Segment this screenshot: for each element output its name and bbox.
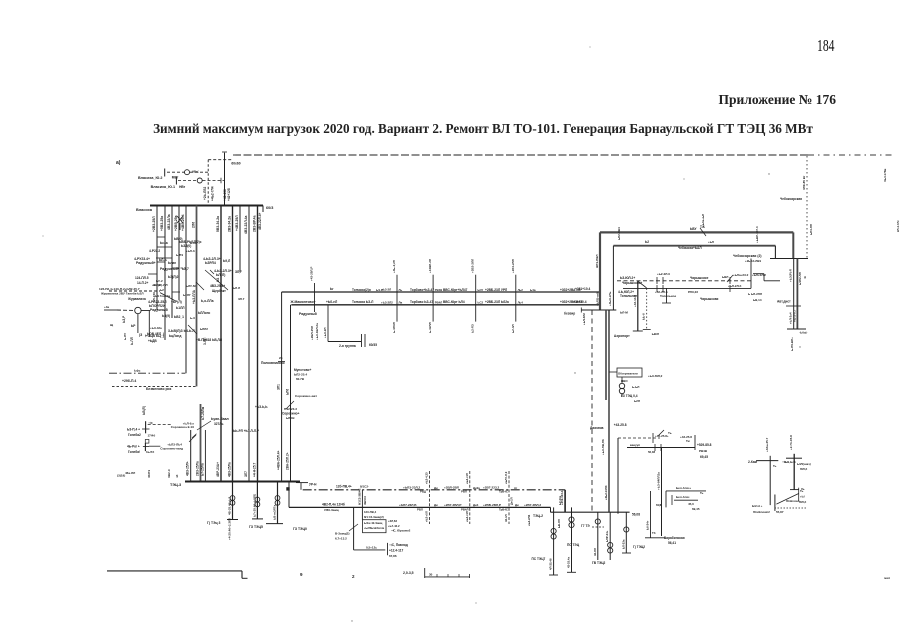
extra rot label B4 <box>527 514 531 526</box>
tap 2-я группа transformer <box>323 305 377 348</box>
bus B4 labels <box>322 502 541 512</box>
svg-text:+ЬЗ-2Л: +ЬЗ-2Л <box>323 328 327 339</box>
svg-text:4В-25.4б+ЬЗ: 4В-25.4б+ЬЗ <box>228 497 232 515</box>
svg-text:(З: (З <box>139 333 142 337</box>
svg-text:ЬЛЛ2: ЬЛЛ2 <box>200 327 208 331</box>
line TO-101 under repair (dashed) <box>233 154 893 156</box>
svg-text:ПС ТЭЦ: ПС ТЭЦ <box>567 543 580 547</box>
svg-text:14-П.2+: 14-П.2+ <box>137 281 149 285</box>
bus B4 lower <box>289 506 551 508</box>
riser R2 label <box>510 497 514 505</box>
svg-text:1Ь/7б: 1Ь/7б <box>146 450 154 454</box>
svg-text:12б-ПВ,4+: 12б-ПВ,4+ <box>336 485 352 489</box>
svg-text:ЬВ/Л: ЬВ/Л <box>652 332 659 336</box>
svg-text:Ди2а: Ди2а <box>473 486 480 490</box>
svg-text:+ЬЛ: +ЬЛ <box>708 240 714 244</box>
svg-text:Ь1ЛЛ: Ь1ЛЛ <box>176 306 185 310</box>
bus B2 ТЭЦ-3 <box>170 482 300 488</box>
svg-text:Ь4а: Ь4а <box>530 288 536 292</box>
wire riser to line TO-101 <box>203 160 214 206</box>
svg-text:Ь7-25Ла: Ь7-25Ла <box>200 463 204 476</box>
riser from upper trunk <box>277 292 282 482</box>
svg-text:Диазема: Диазема <box>590 426 604 430</box>
svg-text:6УД: 6УД <box>656 503 662 507</box>
trunk wire W1 upper <box>282 291 601 293</box>
svg-text:а): а) <box>116 160 121 166</box>
svg-text:Ди: Ди <box>434 486 438 490</box>
svg-text:ЬЛ6: ЬЛ6 <box>286 389 290 395</box>
feeder F11 long <box>253 206 258 482</box>
svg-text:184: 184 <box>817 36 835 55</box>
svg-text:Ди: Ди <box>515 503 519 507</box>
tie dotted from line TO-101 <box>780 156 813 259</box>
right cluster labels <box>748 273 766 302</box>
svg-text:+42+12б: +42+12б <box>227 188 231 201</box>
svg-text:ЬЛУ-М: ЬЛУ-М <box>186 284 196 288</box>
svg-text:Журавлиха 2БУ Ганеба-Ь2Л: Журавлиха 2БУ Ганеба-Ь2Л <box>100 292 144 296</box>
svg-text:42-25.4а: 42-25.4а <box>567 557 571 568</box>
svg-text:ЗЛ,7: ЗЛ,7 <box>235 270 242 274</box>
tie south solid <box>605 310 607 400</box>
ring labels <box>617 214 759 250</box>
svg-text:ГЗ ТЭЦ0: ГЗ ТЭЦ0 <box>293 527 307 531</box>
svg-text:+2ВЗ-25Л: +2ВЗ-25Л <box>152 216 156 232</box>
svg-text:Авт.дист: Авт.дист <box>777 300 791 304</box>
svg-text:Ь7+25.4б+Ь2ЛБ: Ь7+25.4б+Ь2ЛБ <box>252 493 256 517</box>
feeder F1 <box>152 206 157 311</box>
svg-text:РВЛ: РВЛ <box>417 508 423 512</box>
generator G3 of ТЭЦ-3 <box>266 482 307 532</box>
svg-text:+В-Пм618 ЬВ,ЛЛ: +В-Пм618 ЬВ,ЛЛ <box>196 338 223 342</box>
svg-text:ГЗ ТЭЦ5: ГЗ ТЭЦ5 <box>249 525 263 529</box>
svg-text:40/ЛЗ: 40/ЛЗ <box>147 470 151 478</box>
trunk left labels <box>290 287 338 316</box>
right edge rot labels <box>883 168 900 232</box>
node V1 junction <box>595 232 600 310</box>
svg-text:+2В7-223.2: +2В7-223.2 <box>483 486 500 490</box>
caption Приложение № 176 <box>719 92 837 107</box>
svg-text:Щербакт: Щербакт <box>212 289 226 293</box>
wire riser 2 <box>222 152 241 206</box>
svg-text:ЬЛ(Л): ЬЛ(Л) <box>216 273 225 277</box>
svg-text:Г) ТЭц 3: Г) ТЭц 3 <box>207 521 221 525</box>
svg-text:+43-14.4: +43-14.4 <box>633 295 637 307</box>
svg-text:Ь7-25Лм: Ь7-25Лм <box>201 406 205 420</box>
left small labels <box>122 315 164 345</box>
svg-text:42-ЛЛ: 42-ЛЛ <box>593 548 597 556</box>
feeder F7 long <box>216 206 221 482</box>
svg-text:НВт(: НВт( <box>192 169 199 173</box>
line section LS2 on trunks <box>428 259 433 333</box>
tap Радужный-2 <box>160 267 189 271</box>
disconnector row 1 <box>138 169 208 180</box>
svg-text:Ь-ЬЛ: Ь-ЬЛ <box>632 385 639 389</box>
W6 labels <box>618 284 742 301</box>
svg-text:ЬЛ2-ЛВ4: ЬЛ2-ЛВ4 <box>617 227 621 240</box>
svg-text:4ВЗ-25Л+: 4ВЗ-25Л+ <box>186 461 190 476</box>
svg-text:безвир: безвир <box>564 312 575 316</box>
svg-text:ЬЛ2-25.4: ЬЛ2-25.4 <box>294 373 307 377</box>
cluster strut 3 <box>148 262 180 292</box>
svg-text:+14ВЛ-2Л: +14ВЛ-2Л <box>428 259 432 273</box>
svg-text:Ть: Ть <box>773 464 777 468</box>
svg-text:Обогреватели: Обогреватели <box>618 372 638 376</box>
zigzag connector <box>745 259 780 281</box>
svg-text:ПС ТЭЦ7: ПС ТЭЦ7 <box>532 557 546 561</box>
generator G6 ТЭЦ-2 <box>581 512 604 560</box>
svg-text:Ь-42ЛЛ: Ь-42ЛЛ <box>428 322 432 333</box>
svg-text:5ВЗ-34.2а: 5ВЗ-34.2а <box>216 216 220 232</box>
svg-text:ЬЗ,Р: ЬЗ,Р <box>122 315 126 323</box>
labels ГЗ ТЭЦ 0,4 <box>621 394 640 403</box>
svg-text:Топольное: Топольное <box>660 294 676 298</box>
svg-text:ГЗ ТЭЦ 0,4: ГЗ ТЭЦ 0,4 <box>621 394 638 398</box>
cluster extra labels 3 <box>135 276 196 288</box>
scan specks <box>42 46 800 621</box>
branch wire W8 <box>627 443 695 454</box>
sheet frame corner <box>107 571 248 578</box>
generator G7 ТЭЦ-2 <box>592 512 613 565</box>
cluster extra labels 1 <box>160 237 196 253</box>
svg-text:12б-ПВ,4: 12б-ПВ,4 <box>364 510 377 514</box>
svg-text:+ЬЛ7-23Л,В: +ЬЛ7-23Л,В <box>399 503 417 507</box>
generator G4 ТЭЦ-2 <box>532 507 562 575</box>
svg-text:+2ВБ-23Л УРЛ: +2ВБ-23Л УРЛ <box>485 288 508 292</box>
line section LS3 on trunks <box>471 259 476 333</box>
W7 cluster <box>653 430 692 443</box>
svg-text:69,45: 69,45 <box>692 507 700 511</box>
svg-text:69,45: 69,45 <box>700 455 708 459</box>
labels Сорокино риз <box>282 394 318 420</box>
svg-text:Юлknown: Юлknown <box>786 499 800 503</box>
rot labels bottom columns <box>216 462 257 477</box>
feeder F5 <box>181 206 186 374</box>
svg-text:+ЬЗ-1ВЛ.2а: +ЬЗ-1ВЛ.2а <box>315 323 319 340</box>
svg-text:Г7 ТЭ: Г7 ТЭ <box>581 524 590 528</box>
svg-text:+Ь7-42.2: +Ь7-42.2 <box>388 524 400 528</box>
node N1 Камень <box>748 437 778 505</box>
svg-text:+ЬЛ-9.x: +ЬЛ-9.x <box>183 421 194 425</box>
svg-text:+ЬЗ-ЮЛ,2: +ЬЗ-ЮЛ,2 <box>648 374 663 378</box>
left protrusion wire <box>99 283 168 296</box>
svg-text:+2В7-2ВЛ,Р: +2В7-2ВЛ,Р <box>444 503 461 507</box>
svg-text:60х60: 60х60 <box>231 161 240 165</box>
cluster extra labels 5 <box>162 314 208 331</box>
svg-text:+2Ь2-13Лб: +2Ь2-13Лб <box>604 485 608 500</box>
svg-text:+4ВЗ-25Л: +4ВЗ-25Л <box>235 215 239 231</box>
svg-text:+ЬЗ-2Л: +ЬЗ-2Л <box>381 288 391 292</box>
node N2 <box>782 435 811 490</box>
svg-text:8/1 С2-Замц(2): 8/1 С2-Замц(2) <box>364 515 384 519</box>
frame number 9 <box>300 572 303 577</box>
bus B3 labels <box>336 485 518 494</box>
svg-text:⊣С, Павлод: ⊣С, Павлод <box>389 543 408 547</box>
load Авт.дист <box>777 276 806 307</box>
svg-text:+Ь2-4,23: +Ь2-4,23 <box>425 472 429 484</box>
W8 end stub <box>686 435 712 459</box>
svg-text:42-4Л: 42-4Л <box>504 514 508 522</box>
svg-text:Ьуан-Ваал: Ьуан-Ваал <box>211 417 229 421</box>
svg-text:4ВР-23А+: 4ВР-23А+ <box>216 462 220 477</box>
svg-text:Ьб-24+: Ьб-24+ <box>646 520 650 530</box>
tick at 310 <box>581 308 628 326</box>
svg-text:ЬВ(Л): ЬВ(Л) <box>142 406 146 415</box>
svg-text:ЮЛ,б: ЮЛ,б <box>799 500 807 504</box>
svg-text:Ль4: Ль4 <box>518 301 524 305</box>
svg-text:+Ь2ЛБcalifornia: +Ь2ЛБcalifornia <box>364 526 385 530</box>
scale ruler <box>425 568 470 578</box>
generator circle G-left <box>104 305 150 333</box>
svg-text:2ВЗ-25Ла: 2ВЗ-25Ла <box>196 461 200 476</box>
svg-text:+Ь2-г4Л: +Ь2-г4Л <box>465 473 469 484</box>
tap Сорокино <box>171 421 197 438</box>
svg-text:ТЭЦ-2: ТЭЦ-2 <box>533 514 543 518</box>
svg-text:+361+10.4: +361+10.4 <box>575 287 590 291</box>
svg-text:+ЬДВ: +ЬДВ <box>148 339 157 343</box>
labels Полковниково <box>261 356 285 365</box>
svg-text:чб: чб <box>175 474 179 478</box>
svg-text:Лв: Лв <box>399 301 403 305</box>
N2 bottom hook <box>790 489 807 504</box>
svg-text:Ьфс: Ьфс <box>134 369 141 373</box>
svg-text:+ЬЗ-б4ЛЛ2а: +ЬЗ-б4ЛЛ2а <box>657 472 661 490</box>
svg-text:4Ь-Ро/ +: 4Ь-Ро/ + <box>127 445 140 449</box>
feeder FC2 <box>797 259 802 330</box>
svg-text:+2Ь.14.ЛВЗ: +2Ь.14.ЛВЗ <box>745 259 761 263</box>
cluster extra labels 7 <box>123 326 164 340</box>
svg-text:+ЬЛЗ-ЛЬ4: +ЬЛЗ-ЛЬ4 <box>167 443 182 447</box>
svg-text:4Л-23б: 4Л-23б <box>152 292 156 302</box>
svg-text:ЬВУ: ЬВУ <box>690 227 697 231</box>
svg-text:4ВЗ-22Л.4+: 4ВЗ-22Л.4+ <box>258 212 262 230</box>
svg-text:ЬцЛонд: ЬцЛонд <box>169 334 181 338</box>
svg-text:Ь4б: Ь4б <box>190 241 196 245</box>
feeder F3 <box>167 206 172 319</box>
svg-text:Ди4: Ди4 <box>473 503 479 507</box>
scale label <box>403 571 414 575</box>
line section LS4 on trunks <box>511 259 516 333</box>
feeder F4 <box>174 206 179 301</box>
wire W6 <box>623 287 751 289</box>
svg-text:ЬЛ-23а: ЬЛ-23а <box>621 539 625 549</box>
svg-text:⊣0: ⊣0 <box>148 421 153 425</box>
svg-text:ЗЛ.7: ЗЛ.7 <box>238 297 245 301</box>
svg-text:Тм: Тм <box>686 439 690 443</box>
branch Бел.Агач <box>656 486 706 511</box>
feeder F8 long <box>228 206 233 482</box>
svg-text:Б/2-Н +: Б/2-Н + <box>752 504 763 508</box>
tap Гонеба lower <box>127 443 160 454</box>
dashed tie south <box>591 310 593 514</box>
svg-text:+ЬЛО-юб: +ЬЛО-юб <box>595 292 599 306</box>
B3 section separators <box>430 471 509 524</box>
riser R1 between buses <box>357 488 367 507</box>
svg-text:2б: 2б <box>279 356 283 360</box>
svg-text:Гонеба2: Гонеба2 <box>128 433 141 437</box>
svg-text:ЬЛ-М: ЬЛ-М <box>620 311 628 315</box>
svg-text:+4Ь-2,2Л: +4Ь-2,2Л <box>392 260 396 273</box>
feeder F15 <box>200 430 205 482</box>
cluster diag 2 <box>188 270 228 334</box>
svg-text:+4ЬО-2Ль: +4ЬО-2Ль <box>608 291 612 306</box>
svg-text:Ь-ЛЗ: Ь-ЛЗ <box>176 253 183 257</box>
svg-text:2ВЗ-ВР.4а: 2ВЗ-ВР.4а <box>253 215 257 232</box>
branch ЬЛЛ right <box>210 269 242 277</box>
svg-text:6,7+13.2: 6,7+13.2 <box>335 537 347 541</box>
svg-text:2,0-3,5: 2,0-3,5 <box>403 571 414 575</box>
svg-text:ЬВ-ЛЛ: ЬВ-ЛЛ <box>557 519 561 528</box>
tap Сорокино 2 <box>117 435 196 478</box>
svg-text:+5ВЗ-25а: +5ВЗ-25а <box>160 216 164 231</box>
svg-text:+ЬЗ-ЛВ,Лб: +ЬЗ-ЛВ,Лб <box>601 439 605 455</box>
svg-text:30: 30 <box>429 573 433 577</box>
svg-text:ЬЛР-24+: ЬЛР-24+ <box>605 530 609 542</box>
bus B3 (dash-dot, repair) <box>303 489 565 491</box>
bus B4 left riser <box>286 482 289 508</box>
svg-text:Ь/1м 42-Замц: Ь/1м 42-Замц <box>364 521 383 525</box>
label a) <box>116 160 121 166</box>
svg-text:Приложение № 176: Приложение № 176 <box>719 92 837 107</box>
svg-text:Ь2Л: Ь2Л <box>634 399 640 403</box>
riser from lower trunk <box>286 305 291 482</box>
svg-text:+4-Н-25.7: +4-Н-25.7 <box>253 463 257 477</box>
svg-text:Чебоксарская: Чебоксарская <box>780 197 802 201</box>
svg-text:Ь9,Л: Ь9,Л <box>223 259 231 263</box>
bus B1 Власиха 110 kV <box>136 206 273 213</box>
svg-text:ЬВ(0): ЬВ(0) <box>174 237 183 241</box>
svg-text:ЬВ,14: ЬВ,14 <box>753 298 762 302</box>
svg-text:НВт: НВт <box>179 185 186 189</box>
svg-text:Чарышская+: Чарышская+ <box>622 281 642 285</box>
svg-text:+36+10.4: +36+10.4 <box>573 300 587 304</box>
svg-text:ЗЛ1: ЗЛ1 <box>277 384 281 390</box>
svg-text:Бел.Агач+: Бел.Агач+ <box>676 486 691 490</box>
svg-text:Ль: Ль <box>399 288 403 292</box>
svg-text:+ЬЗ-Ь,Ь: +ЬЗ-Ь,Ь <box>255 405 268 409</box>
svg-text:Тб: Тб <box>652 531 656 535</box>
node Чебоксарская <box>733 254 808 259</box>
wire Безменово (dashed) <box>112 379 197 415</box>
svg-text:4ВЗ-22Ла: 4ВЗ-22Ла <box>167 214 171 230</box>
svg-text:Ь-ЛЛ: Ь-ЛЛ <box>130 336 134 345</box>
svg-text:+ЬЛа+23.2: +ЬЛа+23.2 <box>733 273 749 277</box>
svg-text:3-ЛЛ: 3-ЛЛ <box>203 337 207 345</box>
node V2 junction <box>608 246 613 310</box>
svg-text:17/4б: 17/4б <box>148 434 156 438</box>
load tap Радужный-1 <box>134 257 167 265</box>
corner note <box>884 576 890 580</box>
svg-text:ЬВ2_1: ЬВ2_1 <box>174 315 184 319</box>
svg-text:Ь2Л7: Ь2Л7 <box>183 293 191 297</box>
mini diagram base <box>752 487 807 514</box>
feeder F14 grey <box>196 404 206 482</box>
svg-text:6/1С2-ЗВ/4С: 6/1С2-ЗВ/4С <box>357 488 361 505</box>
svg-text:+ЬЗ(Р)-Л: +ЬЗ(Р)-Л <box>789 269 793 282</box>
feeder FB2 <box>645 491 666 538</box>
svg-text:В-Замц(2): В-Замц(2) <box>335 532 349 536</box>
svg-text:ВВС-Юрт+ЬЛ47: ВВС-Юрт+ЬЛ47 <box>443 288 468 292</box>
svg-text:126-П2,4+14б-П,2+ЬЛ2-25,7: 126-П2,4+14б-П,2+ЬЛ2-25,7 <box>99 287 140 291</box>
svg-text:+ЬЛ7-Л,2: +ЬЛ7-Л,2 <box>504 471 508 484</box>
feeder F12 stub <box>258 206 263 231</box>
svg-text:Зимний максимум нагрузок 2020: Зимний максимум нагрузок 2020 год. Вариа… <box>153 121 813 136</box>
svg-text:ЬЗРЛ4: ЬЗРЛ4 <box>205 261 216 265</box>
svg-text:56,08: 56,08 <box>648 450 655 454</box>
disconnector row 2 <box>151 178 225 189</box>
svg-text:ЗЛ9-85 Вт: ЗЛ9-85 Вт <box>802 175 806 190</box>
labels Ьуан <box>197 405 268 433</box>
W6 section ticks <box>657 275 733 292</box>
svg-text:Сорокино+авт: Сорокино+авт <box>295 394 318 398</box>
svg-text:+2ВЗ-2ЛЛ: +2ВЗ-2ЛЛ <box>471 259 475 273</box>
svg-text:Ь2-4Л: Ь2-4Л <box>511 324 515 333</box>
svg-text:+2.74-Х5.8: +2.74-Х5.8 <box>789 435 793 450</box>
wire dash-dot west <box>109 369 185 374</box>
junction labels mid <box>148 300 185 312</box>
svg-text:+ЬЛ-б: +ЬЛ-б <box>186 249 195 253</box>
svg-text:Ь2-44а: Ь2-44а <box>558 495 562 505</box>
cluster extra labels 4 <box>127 293 191 301</box>
svg-text:Радужный: Радужный <box>299 312 317 316</box>
svg-text:67,86: 67,86 <box>389 554 397 558</box>
svg-text:+ЬЗ-2Л2: +ЬЗ-2Л2 <box>381 300 393 304</box>
svg-text:РЛЗ,23: РЛЗ,23 <box>688 290 698 294</box>
svg-text:(З(19): (З(19) <box>117 474 125 478</box>
svg-text:Сорокино+вид: Сорокино+вид <box>160 446 183 450</box>
second stem <box>149 292 156 337</box>
svg-text:ВВС-Юрт ЬЛ4: ВВС-Юрт ЬЛ4 <box>443 300 465 304</box>
svg-text:Ди: Ди <box>434 503 438 507</box>
W5 labels <box>620 272 749 285</box>
section post S1 <box>310 267 320 340</box>
svg-text:Г) ТЭЦ2: Г) ТЭЦ2 <box>633 545 645 549</box>
svg-text:ЬЗЛ2-ЛЛ: ЬЗЛ2-ЛЛ <box>798 272 802 285</box>
svg-text:Ль2: Ль2 <box>518 288 524 292</box>
wire W3 top ring <box>600 231 793 233</box>
svg-text:+Ьб-еЛ: +Ьб-еЛ <box>326 300 338 304</box>
svg-text:ЗВ/4С2: ЗВ/4С2 <box>363 495 367 505</box>
transformer box Обогреватели <box>617 368 642 383</box>
svg-text:Ь-б: Ь-б <box>190 316 195 320</box>
svg-text:Мунстово+: Мунстово+ <box>294 368 311 372</box>
B3 rot labels <box>425 471 508 484</box>
svg-text:ЬЛЛопс: ЬЛЛопс <box>198 311 211 315</box>
svg-text:+12.4-117: +12.4-117 <box>389 549 403 553</box>
svg-text:ЬЗ-ЮЛ.2+: ЬЗ-ЮЛ.2+ <box>620 276 635 280</box>
svg-text:Торбово+ЬЗ-47: Торбово+ЬЗ-47 <box>410 288 434 292</box>
wire W6 riser <box>750 259 752 289</box>
svg-text:2Л-4.7Лс: 2Л-4.7Лс <box>896 220 900 232</box>
labels Диазема <box>590 423 627 455</box>
transformer T1 circles <box>609 372 663 397</box>
svg-text:Ь2-ЛЗ: Ь2-ЛЗ <box>471 324 475 333</box>
svg-text:+43-25.8+: +43-25.8+ <box>655 434 669 438</box>
svg-text:60.7В: 60.7В <box>296 377 305 381</box>
cluster extra labels 6 <box>210 284 245 301</box>
diagonal tap wire <box>160 293 182 304</box>
svg-text:Чарышское: Чарышское <box>690 276 709 280</box>
svg-text:+Ь2-2Л2: +Ь2-2Л2 <box>527 514 531 526</box>
svg-text:ЬЛ4-ЛЛ: ЬЛ4-ЛЛ <box>809 224 813 235</box>
svg-text:РВЛ: РВЛ <box>461 490 467 494</box>
svg-text:2-я группа: 2-я группа <box>339 344 356 348</box>
svg-text:ЗВ2-З: ЗВ2-З <box>167 469 171 478</box>
svg-text:2ВА-25Л.2+: 2ВА-25Л.2+ <box>286 452 290 470</box>
branch 4-ЬЗ-2Л.3 right <box>203 257 231 265</box>
wire W5 dashed <box>617 280 751 282</box>
svg-text:+4ВА-25Л.4+: +4ВА-25Л.4+ <box>277 450 281 470</box>
feeder F6 (grey main) <box>192 206 197 387</box>
